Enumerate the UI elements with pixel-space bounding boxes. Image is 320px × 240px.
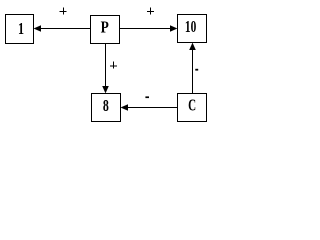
svg-text:8: 8 bbox=[103, 97, 109, 116]
svg-text:1: 1 bbox=[18, 20, 24, 38]
svg-text:P: P bbox=[101, 18, 109, 37]
svg-text:10: 10 bbox=[185, 18, 196, 37]
svg-text:C: C bbox=[188, 96, 196, 115]
